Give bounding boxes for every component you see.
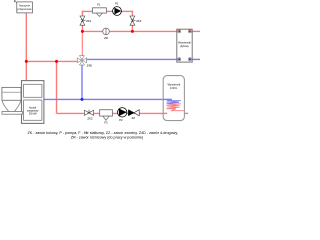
- svg-text:ZR: ZR: [104, 36, 108, 40]
- wire right leg vertical: [131, 11, 133, 32]
- node junction dot on supply main at vessel drop: [25, 60, 28, 63]
- filter F1: [92, 2, 106, 16]
- wire bottom DHW line: [57, 112, 164, 114]
- wire boiler return to tank: [44, 98, 172, 100]
- svg-text:P1: P1: [115, 1, 119, 5]
- wire blue main valve to exchanger: [86, 58, 177, 60]
- check valve ZZ: [128, 110, 139, 120]
- wire top horizontal mid segment: [106, 10, 113, 12]
- expansion vessel box "Naczynie przeponowe": [17, 2, 33, 13]
- boiler fuel hopper: [2, 87, 23, 114]
- pump P2: [118, 108, 127, 122]
- svg-text:F1: F1: [97, 2, 101, 6]
- wire top horizontal left segment: [82, 10, 92, 12]
- filter F2: [100, 110, 113, 125]
- valve ZK3 (vertical ball valve): [130, 16, 142, 25]
- svg-text:ZK2: ZK2: [87, 116, 93, 120]
- svg-text:płytowy: płytowy: [180, 44, 189, 48]
- valve ZK1 (vertical ball valve): [80, 16, 92, 25]
- wire red entry stub into tank: [163, 112, 167, 114]
- 4-way valve Z4D: [77, 56, 86, 65]
- node junction dot left leg / second line: [81, 30, 84, 33]
- svg-text:Wymiennik: Wymiennik: [167, 83, 180, 87]
- svg-text:ZK3: ZK3: [136, 19, 142, 23]
- wire blue down from 4-way valve: [81, 65, 83, 100]
- svg-text:Z4D: Z4D: [87, 64, 92, 68]
- port top-left: [178, 30, 181, 33]
- node junction dot right leg / second line: [131, 30, 134, 33]
- boiler "kocioł zasypowy 25 kW": [22, 81, 44, 124]
- DHW tank "Wymiennik C.W.U.": [163, 76, 184, 121]
- node junction dot at DHW branch: [55, 60, 58, 63]
- wire left leg vertical: [81, 11, 83, 32]
- tank coil transition turn: [167, 102, 180, 104]
- node junction dot blue return: [81, 98, 84, 101]
- differential valve ZR: [103, 28, 110, 40]
- svg-text:ZK - zawór kulowy, P - pompa,: ZK - zawór kulowy, P - pompa, F - filtr …: [27, 131, 177, 135]
- tank coil (blue upper turns): [167, 99, 182, 102]
- port top-right: [188, 30, 191, 33]
- valve ZK2 (horizontal ball valve): [84, 110, 93, 121]
- wire boiler supply main: [26, 60, 78, 62]
- wire blue entry stub into tank: [163, 98, 172, 100]
- port bottom-left: [178, 58, 181, 61]
- wire exchanger bottom right stub: [190, 58, 200, 60]
- port bottom-right: [188, 58, 191, 61]
- plate heat exchanger "Wymiennik płytowy": [177, 29, 192, 62]
- svg-text:F2: F2: [104, 120, 108, 124]
- svg-text:ZK1: ZK1: [86, 19, 92, 23]
- wire tank right stub: [184, 112, 188, 114]
- wire expansion vessel drop: [25, 13, 27, 81]
- svg-text:P2: P2: [119, 118, 123, 122]
- wire branch down to DHW line: [56, 61, 58, 113]
- wire: blue return pipes: [44, 59, 200, 99]
- tank coil (red lower turns): [167, 104, 184, 111]
- wire exchanger top right stub: [190, 30, 200, 32]
- svg-text:przeponowe: przeponowe: [18, 7, 33, 11]
- svg-text:C.W.U.: C.W.U.: [170, 86, 178, 90]
- svg-text:25 kW: 25 kW: [29, 111, 37, 115]
- svg-text:ZR - zawór różnicowy (do pracy: ZR - zawór różnicowy (do pracy w poziomi…: [71, 136, 144, 140]
- wire second horizontal line to exchanger: [82, 30, 177, 32]
- pump P1: [113, 1, 122, 15]
- wire: top circuit supply pipe (red): [26, 11, 200, 114]
- expansion vessel leader arrow: [14, 1, 17, 4]
- wire top horizontal right segment: [121, 10, 132, 12]
- svg-text:ZZ: ZZ: [132, 116, 136, 120]
